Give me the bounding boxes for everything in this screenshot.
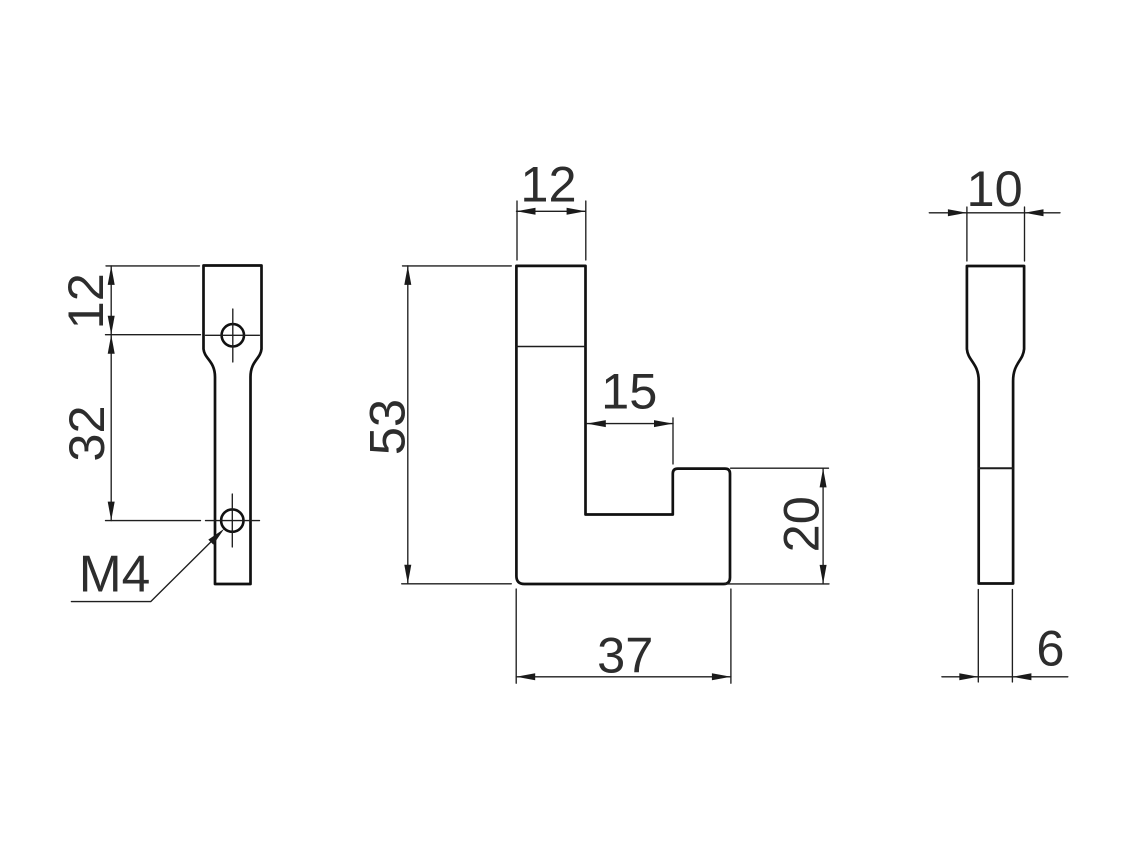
dimension line 12 (middle view) <box>517 210 586 212</box>
left view outline <box>204 266 262 585</box>
extension lines for 20 (middle view) <box>725 468 829 584</box>
arrow down at y=520.6 <box>108 502 115 521</box>
left view bottom hole crosshair <box>206 494 260 547</box>
arrow left at 516.5 <box>517 208 536 215</box>
arrow up at 468.4 <box>820 468 827 487</box>
dimension line 20 <box>822 468 824 584</box>
middle view L-shape outline <box>516 266 730 584</box>
outside arrow pointing left at 1012.4 <box>1012 673 1031 680</box>
svg-text:37: 37 <box>597 626 653 683</box>
arrow left at 586.8 <box>587 420 606 427</box>
outside arrow pointing right at 978.3 <box>959 673 978 680</box>
dimension line 10 with tails <box>929 212 1060 214</box>
M4 leader arrowhead <box>208 529 224 545</box>
outside arrow pointing right at 966.9 <box>948 209 967 216</box>
arrow up at y=265.9 <box>108 266 115 285</box>
dimension line 53 <box>407 266 409 584</box>
arrow up at 265.9 <box>404 266 411 285</box>
dimension line 15 <box>587 423 673 425</box>
M4 leader line <box>71 532 221 602</box>
dimension line 37 <box>516 676 731 678</box>
arrow up at y=334.7 <box>108 335 115 354</box>
arrow down at 583.9 <box>820 565 827 584</box>
dimension line 12/32 (left view) <box>110 266 112 521</box>
arrow right at 730.9 <box>712 673 731 680</box>
arrow down at 583.8 <box>404 565 411 584</box>
left view top hole M4 <box>222 324 244 346</box>
extension lines for 53 (middle view) <box>402 266 512 584</box>
arrow left at 516.2 <box>516 673 535 680</box>
extension lines for 10 (right view) <box>967 207 1025 261</box>
arrow right at 673 <box>654 420 673 427</box>
left view top hole crosshair <box>206 309 260 362</box>
extension lines for 6 (right view) <box>978 590 1012 683</box>
arrow down at y=334.7 <box>108 316 115 335</box>
svg-text:10: 10 <box>967 160 1023 217</box>
right view outline <box>967 266 1024 584</box>
extension lines for 37 (middle view) <box>516 589 731 683</box>
extension line for 15 (middle view) <box>672 418 674 464</box>
dimension line 6 with tails <box>942 676 1068 678</box>
outside arrow pointing left at 1024.5 <box>1025 209 1044 216</box>
left view bottom hole M4 <box>221 509 243 531</box>
svg-text:15: 15 <box>601 363 657 420</box>
svg-text:6: 6 <box>1036 620 1064 677</box>
right view internal step edge <box>979 467 1013 469</box>
svg-text:20: 20 <box>773 496 830 552</box>
arrow right at 585.6 <box>567 208 586 215</box>
extension lines for 12 (middle view) <box>517 201 586 260</box>
middle view internal step edge <box>516 346 585 348</box>
svg-text:53: 53 <box>359 399 416 455</box>
svg-text:12: 12 <box>57 273 114 329</box>
extension lines for 12 and 32 (left view) <box>106 266 201 521</box>
svg-text:M4: M4 <box>79 545 151 603</box>
svg-text:12: 12 <box>520 156 576 213</box>
svg-text:32: 32 <box>58 405 115 461</box>
